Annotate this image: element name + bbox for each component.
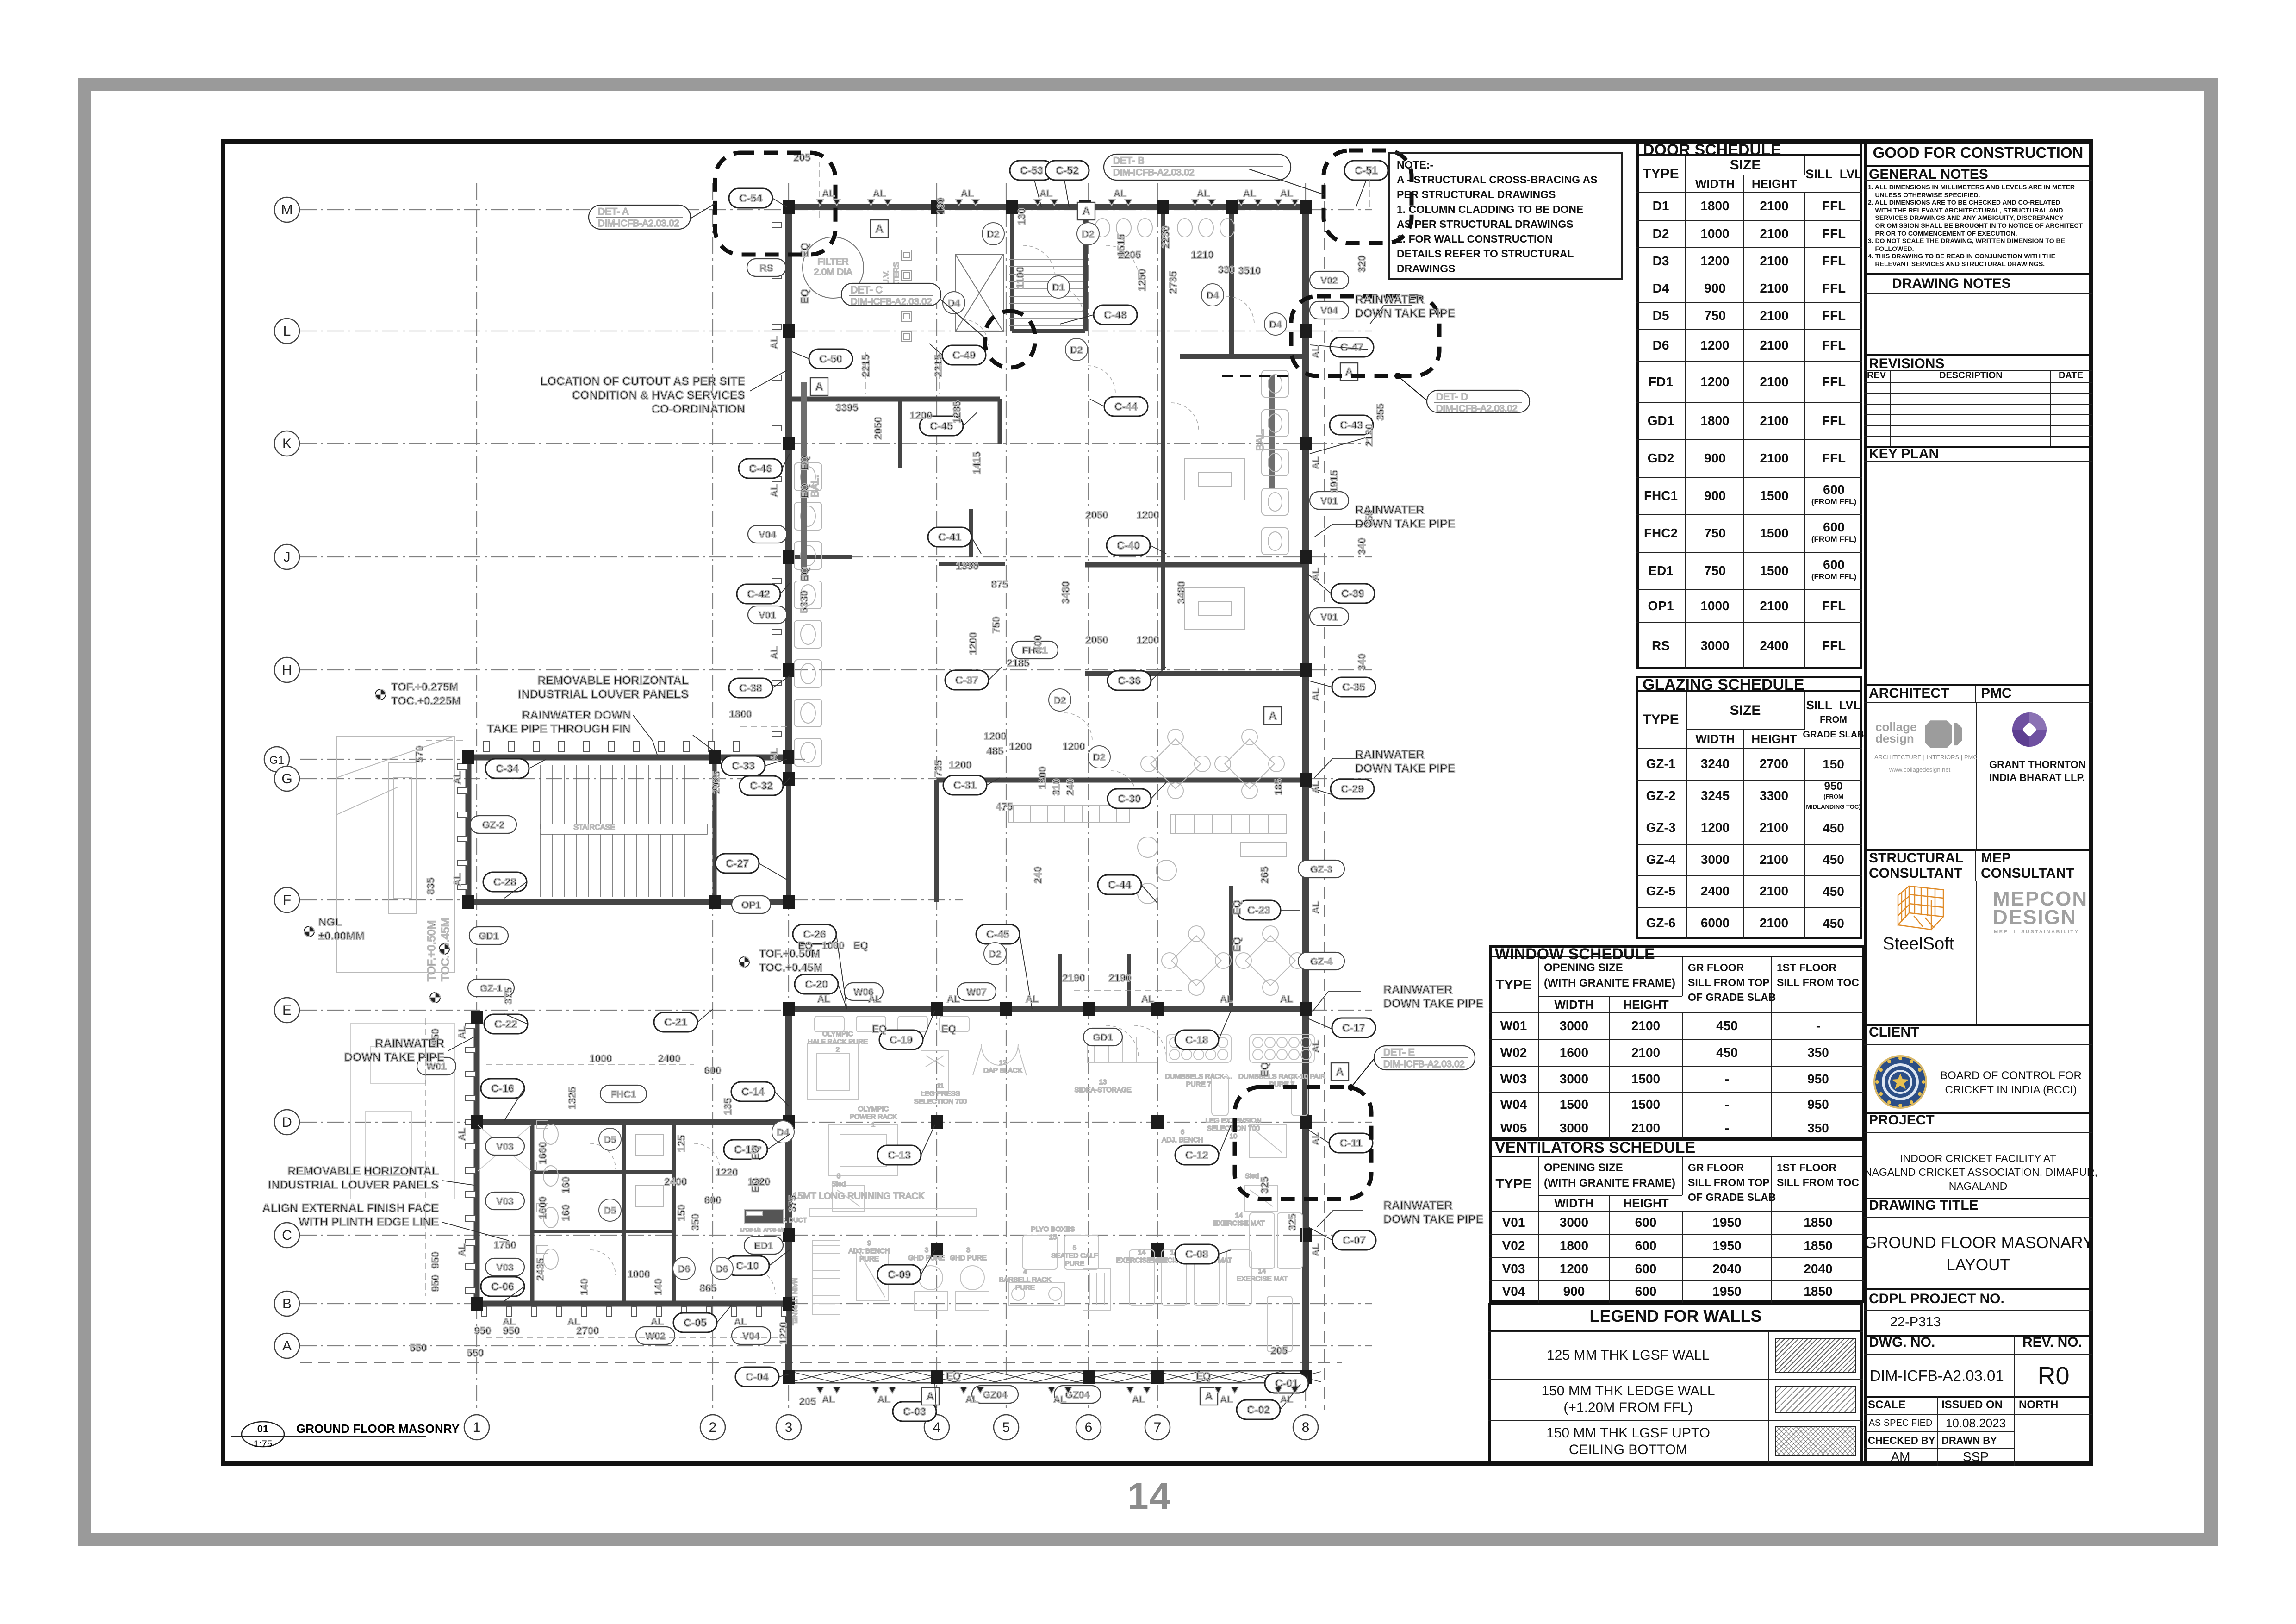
svg-text:GZ-1: GZ-1 <box>480 983 502 994</box>
callout C-52 <box>1045 161 1089 180</box>
svg-text:340: 340 <box>1356 538 1368 555</box>
svg-text:C-18: C-18 <box>1185 1034 1208 1046</box>
svg-text:CONDITION & HVAC SERVICES: CONDITION & HVAC SERVICES <box>572 389 745 402</box>
grid bubble 7 <box>1145 1415 1170 1440</box>
svg-text:AL: AL <box>1197 188 1210 199</box>
svg-text:AL: AL <box>769 484 780 497</box>
svg-text:EQ: EQ <box>872 1023 887 1035</box>
wall top-right room v <box>1229 214 1234 356</box>
svg-text:AL: AL <box>452 771 463 784</box>
svg-text:EQ: EQ <box>799 483 810 498</box>
svg-text:GZ-4: GZ-4 <box>1310 956 1332 967</box>
svg-text:D2: D2 <box>1082 229 1095 240</box>
svg-text:C-04: C-04 <box>746 1371 769 1383</box>
svg-text:BAL.: BAL. <box>1254 429 1266 451</box>
wall L shaft bottom <box>1012 329 1085 333</box>
svg-text:1220: 1220 <box>778 1322 789 1345</box>
tag GZ-1 <box>468 979 514 997</box>
svg-text:3: 3 <box>785 1420 793 1435</box>
svg-text:135: 135 <box>722 1098 734 1115</box>
callout C-08 <box>1175 1244 1219 1264</box>
svg-text:2190: 2190 <box>1109 972 1132 984</box>
svg-text:2435: 2435 <box>535 1258 546 1281</box>
svg-text:AL: AL <box>457 1128 467 1141</box>
grid bubble L <box>274 319 299 344</box>
svg-text:240: 240 <box>1064 779 1076 796</box>
svg-text:TOF.+0.50M: TOF.+0.50M <box>759 948 820 960</box>
svg-text:C-27: C-27 <box>726 857 749 869</box>
grid line 7 <box>1157 183 1158 1410</box>
svg-text:AL: AL <box>1141 994 1154 1005</box>
svg-text:AL: AL <box>769 748 780 761</box>
callout C-11 <box>1329 1133 1373 1153</box>
svg-text:DAP BLACK: DAP BLACK <box>983 1067 1022 1074</box>
svg-text:AL: AL <box>1280 188 1293 199</box>
wash basins <box>1095 219 1235 237</box>
svg-text:W02: W02 <box>645 1331 665 1342</box>
svg-text:NGL: NGL <box>318 916 342 929</box>
svg-text:3: 3 <box>925 1246 928 1254</box>
svg-text:160: 160 <box>560 1177 572 1194</box>
svg-text:1325: 1325 <box>566 1087 578 1110</box>
svg-text:D6: D6 <box>678 1264 691 1274</box>
svg-text:D2: D2 <box>1093 752 1106 763</box>
grid bubble F <box>274 887 299 912</box>
window schedule table <box>1489 945 1864 1139</box>
svg-text:TOF.+0.275M: TOF.+0.275M <box>391 681 459 693</box>
svg-text:EQ: EQ <box>1231 937 1243 952</box>
door tag D4 <box>1264 313 1287 335</box>
svg-text:PURE: PURE <box>1015 1284 1035 1292</box>
svg-text:4: 4 <box>933 1420 941 1435</box>
svg-text:BAL.: BAL. <box>809 475 821 497</box>
svg-text:AL: AL <box>873 188 886 199</box>
svg-text:RAINWATER: RAINWATER <box>1355 293 1425 306</box>
svg-text:DOWN TAKE PIPE: DOWN TAKE PIPE <box>1355 307 1455 320</box>
svg-text:1660: 1660 <box>537 1142 548 1165</box>
grid bubble 1 <box>464 1415 489 1440</box>
svg-text:1200: 1200 <box>1137 634 1159 646</box>
svg-text:A: A <box>282 1338 292 1354</box>
svg-text:600: 600 <box>704 1194 722 1206</box>
grid line D <box>300 1122 1372 1123</box>
wall room 3395 <box>792 397 1000 402</box>
grid bubble 8 <box>1293 1415 1318 1440</box>
wall wing left lower <box>786 779 791 902</box>
wall toilet partition h1 <box>532 1170 674 1174</box>
svg-text:D4: D4 <box>777 1127 790 1138</box>
svg-text:C-44: C-44 <box>1114 400 1138 412</box>
svg-text:5330: 5330 <box>798 591 810 613</box>
svg-text:2190: 2190 <box>1063 972 1085 984</box>
svg-text:V03: V03 <box>496 1142 513 1152</box>
svg-text:1600: 1600 <box>537 1197 548 1219</box>
door tag D5 <box>599 1199 621 1221</box>
plinth dashed line <box>300 183 1342 1410</box>
svg-text:EQ: EQ <box>946 1370 961 1382</box>
svg-text:340: 340 <box>1356 654 1368 671</box>
svg-text:1915: 1915 <box>1328 470 1340 493</box>
dining tables <box>1141 729 1210 799</box>
svg-text:AL: AL <box>567 1317 580 1327</box>
svg-text:D: D <box>282 1115 292 1130</box>
svg-text:1800: 1800 <box>729 708 752 720</box>
callout C-35 <box>1332 677 1375 697</box>
door tag D4 <box>1201 284 1224 306</box>
svg-text:DET- C: DET- C <box>851 285 883 295</box>
grid line 6 <box>1088 183 1089 1410</box>
grid line A <box>300 1345 1372 1346</box>
callout C-36 <box>1108 671 1151 690</box>
svg-text:C-41: C-41 <box>938 531 961 543</box>
wall stub E2 <box>1127 954 1131 1009</box>
svg-text:F: F <box>283 893 291 908</box>
svg-text:1200: 1200 <box>984 731 1007 742</box>
svg-text:5: 5 <box>1002 1420 1010 1435</box>
svg-text:2120: 2120 <box>1363 424 1375 447</box>
callout C-01 <box>1265 1374 1308 1393</box>
svg-text:265: 265 <box>1259 867 1270 884</box>
wall A braced bottom <box>789 1371 1321 1383</box>
wall stub E1 <box>1058 954 1062 1009</box>
svg-text:DOWN TAKE PIPE: DOWN TAKE PIPE <box>1355 518 1455 531</box>
svg-text:V01: V01 <box>1320 496 1338 506</box>
svg-text:865: 865 <box>700 1282 717 1294</box>
svg-text:FHC1: FHC1 <box>611 1089 636 1100</box>
svg-text:1:75: 1:75 <box>254 1439 273 1449</box>
callout C-47 <box>1330 337 1374 357</box>
DET-D label <box>1427 390 1530 414</box>
svg-text:3480: 3480 <box>1060 581 1071 604</box>
wall shaft right <box>1083 214 1088 331</box>
svg-text:9: 9 <box>867 1239 871 1247</box>
svg-text:AL: AL <box>1280 1394 1293 1405</box>
wall partition v3 <box>672 1122 676 1304</box>
wall right exterior <box>1302 207 1309 1377</box>
wall stair left <box>466 757 472 902</box>
svg-text:DET- E: DET- E <box>1383 1047 1415 1058</box>
door tag D6 <box>711 1257 733 1280</box>
svg-text:C-49: C-49 <box>952 349 976 361</box>
svg-text:7: 7 <box>1154 1420 1162 1435</box>
callout C-53 <box>1010 161 1053 180</box>
svg-text:130: 130 <box>1016 208 1027 225</box>
callout C-19 <box>879 1030 923 1049</box>
gym equipment <box>808 1016 1314 1352</box>
svg-text:1200: 1200 <box>1037 767 1048 789</box>
svg-text:AL: AL <box>457 1026 467 1039</box>
svg-text:2185: 2185 <box>1007 657 1030 669</box>
svg-text:AL: AL <box>822 1394 835 1405</box>
svg-text:6: 6 <box>1085 1420 1093 1435</box>
grid bubble 6 <box>1076 1415 1101 1440</box>
AL window markers <box>452 188 1321 1405</box>
callout leaders <box>504 180 1368 1412</box>
tag V03 <box>485 1137 524 1155</box>
svg-text:310: 310 <box>1051 779 1062 796</box>
svg-text:150: 150 <box>676 1205 687 1222</box>
svg-text:OLYMPIC: OLYMPIC <box>858 1105 889 1113</box>
svg-text:RAINWATER: RAINWATER <box>1355 504 1425 517</box>
callout C-44 <box>1098 875 1141 894</box>
grid line 3 <box>788 183 789 1410</box>
tag V01 <box>1310 608 1349 625</box>
svg-text:MAIN LT PANEL: MAIN LT PANEL <box>791 1278 799 1325</box>
wall K v2 <box>969 509 973 557</box>
svg-text:2050: 2050 <box>1086 634 1108 646</box>
svg-text:735: 735 <box>933 760 944 777</box>
callout C-23 <box>1237 900 1281 920</box>
svg-text:140: 140 <box>653 1279 664 1296</box>
callout C-16 <box>481 1079 524 1098</box>
callout C-02 <box>1237 1400 1280 1419</box>
svg-text:C-23: C-23 <box>1247 904 1270 916</box>
general notes <box>1864 167 2092 181</box>
svg-text:CO-ORDINATION: CO-ORDINATION <box>652 403 745 416</box>
svg-text:320: 320 <box>1356 256 1368 273</box>
wall G1 louver <box>468 755 789 761</box>
svg-text:AL: AL <box>1311 901 1321 914</box>
svg-text:C-03: C-03 <box>903 1405 926 1418</box>
callout C-46 <box>739 459 782 478</box>
grid line M <box>300 209 1372 210</box>
svg-text:PURE 7: PURE 7 <box>1186 1081 1211 1088</box>
svg-text:1415: 1415 <box>971 452 983 475</box>
svg-text:AL: AL <box>1311 1243 1321 1256</box>
svg-text:C-13: C-13 <box>888 1149 911 1161</box>
DET-E ring <box>1235 1087 1371 1199</box>
wall G row <box>937 778 1302 783</box>
svg-text:C: C <box>282 1228 292 1243</box>
svg-text:1: 1 <box>473 1420 481 1435</box>
svg-text:375: 375 <box>787 1195 798 1212</box>
callout C-45 <box>976 924 1020 944</box>
note box <box>1388 152 1623 280</box>
svg-text:185: 185 <box>1273 779 1284 796</box>
dark bal wall right <box>1269 375 1275 488</box>
svg-text:APDB-1/2: APDB-1/2 <box>764 1228 784 1233</box>
tag W07 <box>957 983 996 1000</box>
svg-text:1000: 1000 <box>628 1268 650 1280</box>
svg-text:ADJ. BENCH: ADJ. BENCH <box>848 1247 890 1255</box>
svg-text:C-09: C-09 <box>888 1268 911 1280</box>
svg-text:01: 01 <box>257 1423 268 1435</box>
svg-text:AL: AL <box>947 994 960 1005</box>
callout C-27 <box>716 854 759 873</box>
callout C-22 <box>484 1014 528 1034</box>
staircase treads <box>541 765 707 897</box>
svg-text:3395: 3395 <box>836 402 859 413</box>
svg-text:AL: AL <box>457 1243 467 1256</box>
svg-text:11: 11 <box>937 1082 944 1090</box>
svg-text:STAIRCASE: STAIRCASE <box>573 824 615 831</box>
tag V02 <box>1310 271 1349 289</box>
svg-text:C-06: C-06 <box>491 1280 514 1293</box>
grid bubble K <box>274 431 299 456</box>
svg-text:DET- B: DET- B <box>1113 156 1145 166</box>
callout C-34 <box>485 759 529 778</box>
svg-text:DET- D: DET- D <box>1436 392 1468 402</box>
svg-text:325: 325 <box>1259 1177 1270 1194</box>
elec duct dark <box>744 1209 783 1223</box>
svg-text:C-45: C-45 <box>930 420 953 432</box>
svg-text:C-38: C-38 <box>739 682 762 694</box>
svg-text:125: 125 <box>676 1135 687 1152</box>
tag V01 <box>1310 492 1349 509</box>
collage design logo <box>1875 721 1926 754</box>
svg-text:350: 350 <box>690 1214 701 1231</box>
svg-text:C-50: C-50 <box>819 353 842 365</box>
svg-text:D2: D2 <box>1070 345 1083 356</box>
wall stair right <box>713 757 717 902</box>
svg-text:C-34: C-34 <box>496 762 519 775</box>
door tag D2 <box>1065 338 1088 361</box>
svg-text:1285: 1285 <box>951 401 963 424</box>
tag V01 <box>748 606 787 624</box>
DET-B label <box>1104 154 1291 180</box>
grid line 4 <box>936 183 937 1410</box>
svg-text:1000: 1000 <box>590 1053 612 1064</box>
wall H row <box>1085 671 1302 676</box>
wall J row wing seg <box>789 555 852 559</box>
svg-text:2400: 2400 <box>665 1176 687 1187</box>
svg-text:G: G <box>281 771 292 787</box>
structural / mep consultant cells <box>1864 849 1976 881</box>
svg-text:AL: AL <box>961 188 974 199</box>
svg-text:330: 330 <box>1218 264 1235 275</box>
svg-text:DOWN TAKE PIPE: DOWN TAKE PIPE <box>1383 997 1483 1010</box>
good for construction header <box>1864 140 2092 167</box>
callout C-41 <box>928 527 971 547</box>
svg-text:C-52: C-52 <box>1056 164 1079 176</box>
svg-text:DIM-ICFB-A2.03.02: DIM-ICFB-A2.03.02 <box>1436 404 1518 414</box>
svg-text:A: A <box>1269 710 1276 722</box>
grid line C <box>300 1235 1372 1236</box>
callout C-06 <box>481 1277 524 1296</box>
cdpl project no cell <box>1864 1288 2092 1311</box>
wall toilet partition v2 <box>622 1122 626 1304</box>
callout C-54 <box>729 188 772 208</box>
door tag D4 <box>943 292 965 314</box>
svg-text:1200: 1200 <box>967 632 979 655</box>
wall top-right room h <box>1180 354 1302 359</box>
column markers <box>462 200 1312 1384</box>
wall B row louver <box>477 1301 791 1307</box>
svg-text:C-19: C-19 <box>890 1034 913 1046</box>
DET-C ring <box>985 311 1035 368</box>
svg-text:PURE: PURE <box>1065 1260 1084 1268</box>
wall shaft left <box>1010 214 1014 331</box>
DET-A label <box>589 205 691 229</box>
svg-text:LEG PRESS: LEG PRESS <box>921 1090 960 1098</box>
grid bubble G1 <box>264 747 289 772</box>
svg-text:OP1: OP1 <box>741 900 761 911</box>
svg-text:325: 325 <box>1287 1214 1298 1231</box>
svg-text:A: A <box>926 1390 934 1403</box>
wall corridor v <box>1161 214 1165 557</box>
svg-text:POWER RACK: POWER RACK <box>850 1113 897 1121</box>
callout C-03 <box>893 1402 936 1421</box>
DET-A ring <box>715 153 835 255</box>
svg-text:8: 8 <box>837 1172 840 1180</box>
svg-text:5: 5 <box>1073 1244 1076 1252</box>
svg-text:AL: AL <box>1311 345 1321 358</box>
svg-text:Sled: Sled <box>1245 1172 1259 1180</box>
svg-text:C-35: C-35 <box>1342 681 1365 693</box>
svg-text:A: A <box>1205 1390 1213 1403</box>
svg-text:DOWN TAKE PIPE: DOWN TAKE PIPE <box>344 1051 444 1064</box>
canopy left <box>336 736 455 973</box>
callout C-12 <box>1175 1145 1219 1165</box>
svg-text:1750: 1750 <box>494 1239 516 1251</box>
scale / issued / north cells <box>1864 1396 1938 1415</box>
svg-text:12: 12 <box>999 1059 1007 1067</box>
svg-text:GZ04: GZ04 <box>983 1390 1008 1400</box>
A box <box>1264 707 1282 725</box>
svg-text:1515: 1515 <box>1115 234 1127 257</box>
svg-text:2400: 2400 <box>658 1053 681 1064</box>
wall room 3395 right <box>998 399 1002 444</box>
tag V04 <box>1310 301 1349 319</box>
glazing schedule table <box>1636 676 1862 939</box>
svg-text:DIM-ICFB-A2.03.02: DIM-ICFB-A2.03.02 <box>598 219 679 229</box>
svg-text:130: 130 <box>935 198 946 215</box>
svg-text:C-28: C-28 <box>493 876 516 888</box>
svg-text:C-26: C-26 <box>803 928 826 940</box>
svg-text:400: 400 <box>1032 635 1044 652</box>
canopy left small <box>350 1023 455 1199</box>
grid bubble 4 <box>924 1415 949 1440</box>
callout C-33 <box>722 756 765 775</box>
svg-text:A: A <box>1082 205 1090 218</box>
steelsoft logo <box>1895 883 1946 937</box>
tag GZ-2 <box>470 816 516 833</box>
svg-text:AL: AL <box>1311 781 1321 793</box>
svg-text:1210: 1210 <box>1191 249 1214 261</box>
svg-text:2230: 2230 <box>1160 226 1171 249</box>
svg-text:REMOVABLE HORIZONTAL: REMOVABLE HORIZONTAL <box>287 1165 439 1178</box>
svg-text:AL: AL <box>1311 1040 1321 1053</box>
svg-text:485: 485 <box>987 745 1004 757</box>
tag GZ04 <box>1054 1386 1101 1403</box>
svg-text:GD1: GD1 <box>1093 1032 1113 1043</box>
callout C-40 <box>1107 536 1150 555</box>
door tag D2 <box>982 223 1004 245</box>
svg-text:EXERCISE MAT: EXERCISE MAT <box>1237 1275 1288 1283</box>
client cell with BCCI logo <box>1864 1024 2092 1045</box>
wall D row <box>477 1119 791 1125</box>
toilet fixtures left wing <box>794 463 822 766</box>
svg-text:SEATED CALF: SEATED CALF <box>1051 1252 1098 1260</box>
DET-D ring <box>1291 296 1439 376</box>
svg-text:835: 835 <box>425 878 436 895</box>
grant thornton logo <box>2011 712 2047 748</box>
callout C-05 <box>673 1313 717 1332</box>
svg-text:DIM-ICFB-A2.03.02: DIM-ICFB-A2.03.02 <box>1113 168 1195 178</box>
svg-text:D4: D4 <box>1207 290 1219 301</box>
svg-text:15MT LONG RUNNING TRACK: 15MT LONG RUNNING TRACK <box>793 1191 925 1201</box>
svg-text:ALIGN EXTERNAL FINISH FACE: ALIGN EXTERNAL FINISH FACE <box>262 1202 439 1215</box>
grid line 1 <box>476 183 477 1410</box>
svg-text:LOCATION OF CUTOUT AS PER SITE: LOCATION OF CUTOUT AS PER SITE <box>540 375 745 388</box>
svg-text:BARBELL RACK: BARBELL RACK <box>999 1276 1052 1284</box>
svg-text:TAKE PIPE THROUGH FIN: TAKE PIPE THROUGH FIN <box>487 723 631 736</box>
sheet label 01 / 1:75 <box>222 1407 463 1458</box>
A box <box>1077 202 1095 220</box>
top stair <box>1009 259 1083 326</box>
DET-B ring <box>1324 150 1412 243</box>
svg-text:10: 10 <box>1230 1132 1238 1140</box>
